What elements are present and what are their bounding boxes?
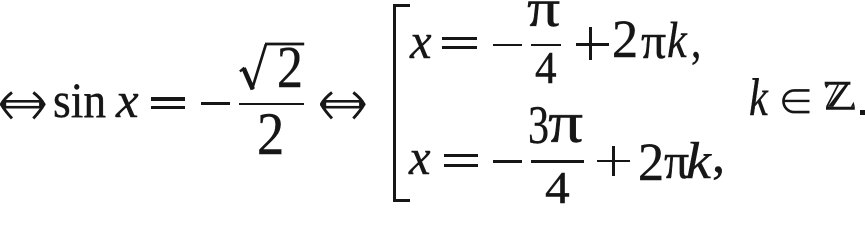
- element-of sign: [780, 89, 811, 115]
- variable x (main): [116, 75, 139, 125]
- equals row2 bottom bar: [444, 164, 478, 167]
- equals row1 top bar: [442, 37, 477, 40]
- variable x (row1): [410, 16, 432, 66]
- pi numerator row2: [548, 94, 583, 152]
- bracket vertical bar: [393, 4, 397, 202]
- radical sign sqrt: [238, 41, 308, 93]
- bracket top arm: [393, 4, 410, 7]
- denominator 4 row2: [545, 166, 570, 211]
- minus row2: [493, 160, 522, 163]
- fraction bar pi/4: [531, 44, 561, 47]
- double arrow (middle): [320, 90, 366, 121]
- pi inline row2: [664, 136, 689, 186]
- variable k (right): [749, 72, 768, 125]
- plus row2 vertical: [612, 146, 615, 176]
- numerator 3 row2: [528, 98, 549, 152]
- variable k row1: [667, 15, 687, 66]
- denominator 4 row1: [535, 46, 557, 91]
- variable x (row2): [409, 132, 431, 182]
- fraction bar sqrt2/2: [239, 103, 304, 106]
- comma row1: [691, 15, 701, 65]
- equals sign (main) top bar: [151, 97, 185, 100]
- coefficient 2 row1: [612, 12, 638, 66]
- minus sign (main): [201, 102, 230, 105]
- period after Z: [860, 110, 865, 115]
- blackboard-bold Z (set of integers): [824, 81, 856, 112]
- text sin: [53, 75, 106, 125]
- plus row1 vertical: [589, 27, 592, 60]
- denominator 2: [257, 104, 284, 164]
- variable k row2: [686, 136, 711, 188]
- equals row2 top bar: [444, 154, 478, 157]
- fraction bar 3pi/4: [531, 160, 584, 163]
- minus row1: [493, 44, 522, 47]
- numerator 2 of sqrt2/2: [277, 38, 303, 97]
- plus row2 horizontal: [597, 160, 630, 163]
- equals row1 bottom bar: [442, 46, 477, 49]
- pi inline row1: [641, 16, 666, 66]
- plus row1 horizontal: [576, 43, 609, 46]
- coefficient 2 row2: [638, 135, 664, 189]
- comma row2: [712, 130, 725, 182]
- pi numerator row1: [527, 0, 560, 36]
- equals sign (main) bottom bar: [151, 106, 185, 109]
- double arrow (left): [0, 90, 46, 121]
- bracket bottom arm: [393, 199, 410, 202]
